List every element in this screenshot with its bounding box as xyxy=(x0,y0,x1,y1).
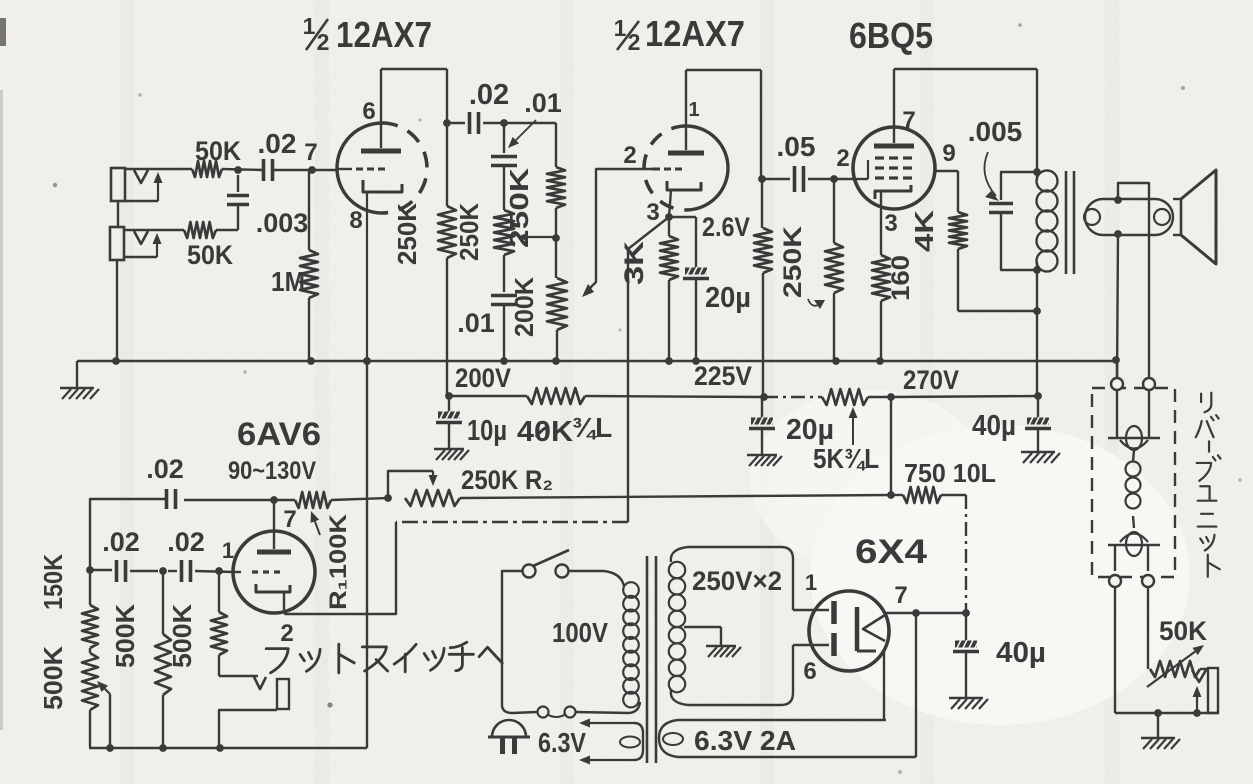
transformer T2 core xyxy=(647,556,656,763)
capacitor .02 input xyxy=(264,159,273,181)
label footswitch katakana xyxy=(266,642,502,673)
capacitor 10u filter xyxy=(436,396,462,449)
svg-text:90~130V: 90~130V xyxy=(228,457,316,485)
label V2 1/2 12AX7 xyxy=(614,13,745,55)
node rectifier out xyxy=(962,609,970,617)
capacitor .02 coupling V1 xyxy=(447,112,504,134)
label 50K ch2 xyxy=(187,240,233,270)
svg-text:250V×2: 250V×2 xyxy=(692,566,782,596)
switch SW power xyxy=(523,550,570,578)
svg-text:.01: .01 xyxy=(457,308,495,338)
node 200V xyxy=(445,392,453,400)
label reverb unit katakana xyxy=(1196,393,1221,577)
svg-text:1: 1 xyxy=(688,99,699,121)
label .01 upper xyxy=(508,88,562,148)
resistor R1 100K xyxy=(274,492,388,508)
wiper 250K pot xyxy=(517,233,556,242)
node 270V xyxy=(887,393,895,401)
jack J4 reverb out xyxy=(1192,668,1218,713)
svg-text:5K¾L: 5K¾L xyxy=(813,443,879,474)
node V1 plate node xyxy=(443,119,451,127)
svg-text:.02: .02 xyxy=(258,128,297,159)
label .005 xyxy=(968,116,1023,201)
label 160 xyxy=(887,255,915,301)
transformer T2 primary xyxy=(623,582,639,707)
tube V5 plate 1 xyxy=(793,601,834,624)
ground G6 center tap xyxy=(706,646,741,657)
potentiometer 500K speed xyxy=(82,653,98,747)
terminal reverb out ground xyxy=(1109,575,1121,587)
potentiometer 50K reverb xyxy=(1147,645,1208,687)
svg-text:500K: 500K xyxy=(110,604,140,668)
label 2.6V xyxy=(702,212,750,242)
label .01 lower xyxy=(457,308,495,338)
pin 6 V1 xyxy=(362,98,375,125)
node 20u ground xyxy=(692,357,700,365)
pin 9 V3 xyxy=(942,140,955,167)
reverb spring coil xyxy=(1126,450,1141,528)
wire V3 screen xyxy=(935,171,958,212)
label 500K C xyxy=(167,604,197,668)
node footswitch ground xyxy=(216,744,224,752)
label 50K reverb xyxy=(1159,616,1207,646)
node heater tie xyxy=(912,609,920,617)
label 50K ch1 xyxy=(195,136,241,166)
pin 3 V3 xyxy=(884,210,897,237)
ground G4 40u A xyxy=(1021,452,1060,463)
pin 7 V1 xyxy=(304,139,317,166)
node R2 left xyxy=(384,494,392,502)
capacitor 20u filter xyxy=(749,397,775,455)
tube V3 grids xyxy=(875,158,912,178)
svg-text:.005: .005 xyxy=(968,116,1023,147)
ground G5 40u B xyxy=(949,698,988,709)
svg-text:1: 1 xyxy=(614,15,627,41)
svg-text:250K: 250K xyxy=(392,203,422,265)
capacitor .005 xyxy=(989,172,1037,270)
wire reverb bottom xyxy=(1115,712,1218,714)
svg-text:6AV6: 6AV6 xyxy=(237,416,321,452)
wire cathode to bypass xyxy=(669,217,696,268)
node ground link top xyxy=(363,357,371,365)
reverb input transducer xyxy=(1108,390,1160,450)
capacitor .05 coupling xyxy=(762,166,854,192)
node C osc grid xyxy=(215,567,223,575)
tube V3 envelope xyxy=(853,127,935,209)
terminal reverb in ground xyxy=(1111,361,1123,390)
pin 2 V3 xyxy=(836,145,849,172)
svg-text:7: 7 xyxy=(304,139,317,166)
tube V2 grid xyxy=(652,168,682,171)
wire secondary to ground xyxy=(1117,234,1118,380)
svg-text:.003: .003 xyxy=(256,208,309,238)
wire to C .02 in xyxy=(222,169,264,170)
svg-text:.05: .05 xyxy=(777,131,816,162)
svg-text:250K: 250K xyxy=(454,203,484,261)
node mix junction xyxy=(552,234,560,242)
wire jack sleeves to ground xyxy=(117,201,118,361)
label 4K xyxy=(909,210,939,252)
label 200V xyxy=(455,363,511,393)
stray mark xyxy=(536,426,549,437)
label 150K xyxy=(38,554,68,610)
svg-text:40µ: 40µ xyxy=(972,410,1016,442)
wire ground link xyxy=(366,361,368,748)
svg-text:7: 7 xyxy=(894,582,907,609)
svg-text:2: 2 xyxy=(623,142,636,169)
resistor 50K ch2 xyxy=(184,222,216,238)
potentiometer 200K volume xyxy=(547,238,567,361)
svg-text:7: 7 xyxy=(902,107,915,134)
svg-text:200V: 200V xyxy=(455,363,511,393)
transformer T2 heater winding xyxy=(659,720,916,757)
wire reverb out hot xyxy=(1147,587,1149,669)
resistor 250K V1 plate load xyxy=(438,123,456,396)
node tone ground xyxy=(500,357,508,365)
svg-text:1: 1 xyxy=(222,538,234,563)
wire C.02 to grid xyxy=(273,169,338,171)
tube V1 grid xyxy=(338,168,385,170)
node reverb ground A xyxy=(1154,709,1162,717)
wire plate feedback xyxy=(184,499,274,501)
resistor 250K V3 grid xyxy=(825,179,843,361)
label .02 osc2 xyxy=(167,527,205,557)
node 3K ground xyxy=(665,357,673,365)
svg-text:12AX7: 12AX7 xyxy=(336,14,432,55)
node 160 ground xyxy=(876,357,884,365)
wire fuse to winding xyxy=(575,702,640,713)
wire V3 plate top xyxy=(894,69,1037,172)
svg-text:8: 8 xyxy=(349,207,362,234)
ground G1 input xyxy=(60,388,99,399)
wire 270V to OT xyxy=(891,396,1038,397)
ground G2 10u xyxy=(434,449,469,460)
svg-text:6BQ5: 6BQ5 xyxy=(849,15,933,56)
svg-text:3: 3 xyxy=(884,210,897,237)
svg-text:200K: 200K xyxy=(509,277,539,337)
node grid V1 xyxy=(308,166,316,174)
node secondary bottom xyxy=(1114,230,1122,238)
label 200K volume xyxy=(509,277,539,337)
svg-text:225V: 225V xyxy=(694,361,752,391)
tube V3 grid lead xyxy=(854,160,868,179)
svg-text:250K: 250K xyxy=(504,168,534,248)
wire secondary bridge xyxy=(1118,183,1149,387)
label .003 xyxy=(256,208,309,238)
label V5 6X4 xyxy=(855,533,927,571)
svg-text:3K: 3K xyxy=(619,240,649,285)
resistor 50K ch1 xyxy=(192,161,222,177)
svg-text:9: 9 xyxy=(942,140,955,167)
label 5K 3/4L xyxy=(813,407,879,474)
capacitor 20u bypass xyxy=(683,267,709,361)
pin 1 V2 xyxy=(688,99,699,121)
svg-text:12AX7: 12AX7 xyxy=(645,13,745,54)
svg-text:2.6V: 2.6V xyxy=(702,212,750,242)
tube V5 envelope xyxy=(809,591,889,671)
svg-text:6X4: 6X4 xyxy=(855,533,927,571)
resistor 4K screen xyxy=(949,212,1037,311)
heater tap 6.3V xyxy=(579,719,643,765)
node 750 left xyxy=(887,491,895,499)
node 250K ground xyxy=(832,357,840,365)
pin 3 V2 xyxy=(646,199,659,226)
svg-text:.02: .02 xyxy=(469,79,509,111)
pin 7 V5 xyxy=(894,582,907,609)
tube V3 plate xyxy=(874,69,914,146)
speaker SP xyxy=(1181,170,1216,264)
resistor 250K mix upper xyxy=(547,167,565,238)
svg-text:1: 1 xyxy=(805,570,817,595)
transformer T1 secondary xyxy=(1084,199,1181,235)
label 6.3V xyxy=(538,727,586,758)
capacitor .02 feedback xyxy=(90,489,176,570)
label 10u xyxy=(467,415,507,447)
svg-text:50K: 50K xyxy=(1159,616,1207,646)
wiper 200K to V2 grid xyxy=(582,169,652,297)
wire bottom bus xyxy=(89,747,367,749)
svg-text:2: 2 xyxy=(628,29,641,55)
tube V2 cathode xyxy=(667,181,701,217)
node V3 grid node xyxy=(830,175,838,183)
node wiper ground xyxy=(106,744,114,752)
resistor 500K osc B xyxy=(155,571,171,748)
label 3K xyxy=(619,240,649,285)
label .02 osc1 xyxy=(102,527,140,557)
wire reverb out left xyxy=(1114,587,1116,713)
transformer T1 core xyxy=(1066,171,1074,274)
resistor 150K osc xyxy=(82,570,98,653)
fuse F1 xyxy=(538,707,576,718)
wire switch to winding xyxy=(568,571,624,586)
transformer T2 HV secondary xyxy=(669,547,793,705)
wire 270V to 750 xyxy=(890,397,892,495)
svg-text:270V: 270V xyxy=(903,365,959,395)
label .02 coupling xyxy=(469,79,509,111)
tube V2 envelope xyxy=(644,126,728,210)
label R1 100K xyxy=(311,511,352,610)
wiper 500K speed xyxy=(97,681,110,748)
svg-text:160: 160 xyxy=(887,255,915,301)
ground bus wire xyxy=(77,361,1116,388)
svg-text:20µ: 20µ xyxy=(705,282,751,314)
svg-text:3: 3 xyxy=(646,199,659,226)
label 750 10L xyxy=(904,458,996,488)
node secondary top xyxy=(1114,196,1122,204)
node mix xyxy=(234,166,242,174)
tube V4 grid xyxy=(234,571,280,573)
svg-text:6.3V 2A: 6.3V 2A xyxy=(694,725,796,756)
wire 750 to cathode xyxy=(965,495,967,613)
resistor 1M grid leak xyxy=(300,170,318,361)
wire OT bottom to B+ xyxy=(1036,270,1038,396)
capacitor .01 tone lower xyxy=(491,296,517,362)
terminal reverb out hot xyxy=(1142,575,1154,587)
plug AC xyxy=(488,720,530,754)
svg-text:150K: 150K xyxy=(38,554,68,610)
node V1 cathode ground xyxy=(363,357,371,365)
pin 1 V5 xyxy=(805,570,817,595)
label 250K grid V3 xyxy=(779,226,825,309)
tube V3 cathode xyxy=(875,185,911,255)
label 225V xyxy=(694,361,752,391)
svg-text:50K: 50K xyxy=(195,136,241,166)
label 40K 3/4L xyxy=(517,412,612,448)
label 250K R2 xyxy=(461,465,553,495)
tube V2 plate xyxy=(668,70,704,153)
tube V5 plate 2 xyxy=(793,633,834,656)
wire V2 plate top xyxy=(686,70,761,179)
node 500KB ground xyxy=(159,744,167,752)
wire V5 heater xyxy=(883,650,885,720)
wire to footswitch jack xyxy=(219,675,258,677)
node OT primary bottom xyxy=(1033,266,1041,274)
svg-text:6.3V: 6.3V xyxy=(538,727,586,758)
resistor 160 cathode xyxy=(872,255,890,361)
pin 7 V3 xyxy=(902,107,915,134)
resistor 250K V2 plate load xyxy=(754,179,772,397)
node jack ground xyxy=(112,357,120,365)
svg-text:40K: 40K xyxy=(517,416,573,448)
svg-text:4K: 4K xyxy=(909,210,939,252)
ground G3 20u xyxy=(747,455,782,466)
resistor 3K cathode xyxy=(660,217,678,361)
label V1 1/2 12AX7 xyxy=(303,13,432,55)
svg-text:2: 2 xyxy=(317,29,330,55)
node tone top xyxy=(500,119,508,127)
svg-text:R₁100K: R₁100K xyxy=(325,513,352,610)
jack J2 input 2 xyxy=(110,227,162,260)
node B osc xyxy=(159,567,167,575)
svg-text:20µ: 20µ xyxy=(786,414,834,446)
node secondary ground xyxy=(1112,356,1120,364)
svg-text:50K: 50K xyxy=(187,240,233,270)
label 1M xyxy=(271,266,305,297)
pin 1 V4 xyxy=(222,538,234,563)
label 20u bypass xyxy=(705,282,751,314)
svg-text:.02: .02 xyxy=(167,527,205,557)
potentiometer 250K tone xyxy=(494,210,514,292)
svg-text:6: 6 xyxy=(803,658,816,685)
label 250Vx2 xyxy=(692,566,782,596)
jack J1 input 1 xyxy=(111,168,163,201)
node screen B+ xyxy=(1033,307,1041,315)
potentiometer R2 250K xyxy=(388,471,460,506)
capacitor 40u filter B xyxy=(953,613,979,698)
svg-text:2: 2 xyxy=(280,620,293,647)
tube V1 plate xyxy=(361,69,401,151)
wire R2 to B+ xyxy=(460,495,891,498)
capacitor .02 osc2 xyxy=(168,560,234,582)
node 1M ground xyxy=(307,357,315,365)
label 250K plate V1 xyxy=(392,203,422,265)
jack J3 footswitch xyxy=(219,677,289,748)
node OT primary top xyxy=(1033,168,1041,176)
svg-text:750 10L: 750 10L xyxy=(904,458,996,488)
resistor 5K dropping xyxy=(764,389,891,405)
node reverb ground B xyxy=(1193,709,1201,717)
label V3 6BQ5 xyxy=(849,15,933,56)
svg-text:7: 7 xyxy=(283,506,296,533)
svg-text:.02: .02 xyxy=(146,454,184,484)
wire ground stem reverb xyxy=(1157,713,1159,738)
wire pin7 out xyxy=(886,612,966,614)
label 250K mix xyxy=(504,168,534,248)
label 6.3V 2A xyxy=(694,725,796,756)
resistor 500K osc C xyxy=(211,571,227,676)
svg-text:500K: 500K xyxy=(167,604,197,668)
pin 2 V4 xyxy=(280,620,293,647)
reverb output transducer xyxy=(1108,532,1160,571)
wire V1 plate top xyxy=(381,69,447,123)
label 270V xyxy=(903,365,959,395)
svg-text:250K: 250K xyxy=(779,226,807,298)
svg-text:2: 2 xyxy=(836,145,849,172)
node 225V xyxy=(760,393,768,401)
label 40u A xyxy=(972,410,1016,442)
svg-text:.01: .01 xyxy=(524,88,562,118)
wire B+ rail 200V xyxy=(449,396,764,397)
tube V4 envelope xyxy=(233,531,315,613)
label .02 feedback xyxy=(146,454,184,484)
tube V4 plate xyxy=(257,500,291,552)
label 250K pot xyxy=(454,203,484,261)
svg-text:40µ: 40µ xyxy=(996,637,1046,669)
node A osc xyxy=(86,566,94,574)
pin 7 V4 xyxy=(283,506,296,533)
svg-text:10µ: 10µ xyxy=(467,415,507,447)
wire tone top right xyxy=(504,123,556,167)
resistor 40K dropping xyxy=(527,388,585,404)
label 500K B xyxy=(110,604,140,668)
svg-text:1M: 1M xyxy=(271,266,305,297)
wire line left xyxy=(502,571,537,713)
capacitor 40u filter A xyxy=(1025,396,1051,452)
label 100V xyxy=(552,617,608,648)
label .02 input xyxy=(258,128,297,159)
reverb unit box xyxy=(1092,388,1175,577)
node 200K ground xyxy=(552,357,560,365)
svg-text:500K: 500K xyxy=(38,646,68,710)
ground G7 reverb xyxy=(1141,738,1180,749)
capacitor .01 tone upper xyxy=(491,123,517,210)
svg-text:.02: .02 xyxy=(102,527,140,557)
label 90-130V xyxy=(228,457,316,485)
wire reverb injection xyxy=(285,217,669,614)
pin 8 V1 xyxy=(349,207,362,234)
capacitor .003 xyxy=(227,175,249,230)
terminal reverb in hot xyxy=(1143,378,1155,390)
node V2 plate node xyxy=(758,175,766,183)
label .05 xyxy=(777,131,816,162)
wire J1 to R 50K xyxy=(125,168,192,170)
wire J2 to R 50K xyxy=(124,229,184,231)
label 500K speed xyxy=(38,646,68,710)
pin 2 V2 xyxy=(623,142,636,169)
capacitor .02 osc1 xyxy=(90,560,158,582)
label V4 6AV6 xyxy=(237,416,321,452)
resistor 750 choke xyxy=(891,487,966,503)
pin 6 V5 xyxy=(803,658,816,685)
node V2 cathode xyxy=(665,213,673,221)
node 40u A xyxy=(1034,392,1042,400)
tube V4 cathode xyxy=(256,584,290,611)
node V4 plate xyxy=(270,496,278,504)
tube V5 cathode xyxy=(857,607,885,651)
wire center tap xyxy=(684,627,721,646)
svg-text:1: 1 xyxy=(303,13,316,39)
svg-text:250K R₂: 250K R₂ xyxy=(461,465,553,495)
